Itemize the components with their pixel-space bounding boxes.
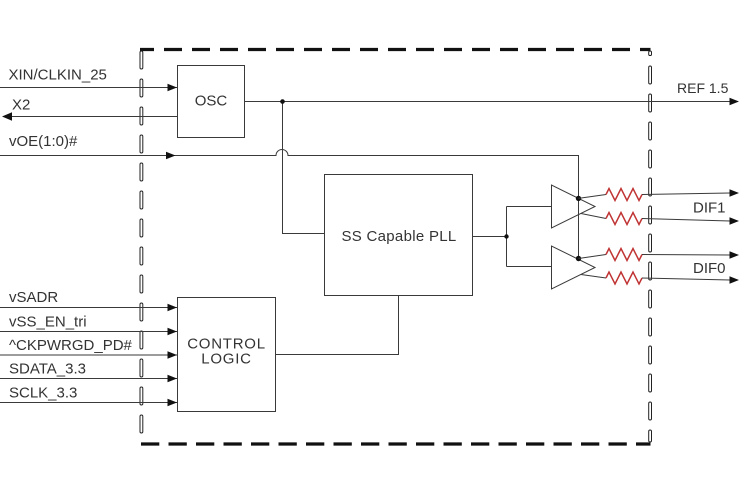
- node junction at PLL output split: [504, 234, 508, 238]
- node junction on buffer U1: [576, 196, 581, 201]
- svg-text:vSADR: vSADR: [9, 289, 58, 306]
- svg-text:XIN/CLKIN_25: XIN/CLKIN_25: [9, 67, 107, 84]
- wire R3 to DIF0+ output: [642, 254, 730, 257]
- wire CONTROL LOGIC to PLL: [276, 296, 399, 355]
- buffer U2 (DIF0 output buffer): [552, 246, 596, 289]
- svg-text:SCLK_3.3: SCLK_3.3: [9, 385, 77, 402]
- buffer U1 (DIF1 output buffer): [552, 185, 596, 228]
- wire buffer U1 to resistor R1: [579, 195, 607, 199]
- block SS Capable PLL: [325, 175, 473, 296]
- wire buffer U2 to resistor R4: [581, 275, 606, 279]
- wire buffer U1 to resistor R2: [581, 214, 606, 219]
- resistor R1: [606, 189, 642, 201]
- wire ^CKPWRGD_PD# input: [0, 354, 177, 356]
- chip boundary dashed border: right edge (hollow dashes): [649, 51, 652, 442]
- wire SCLK_3.3 input: [0, 402, 177, 404]
- chip boundary dashed border: top edge: [140, 48, 651, 51]
- svg-text:LOGIC: LOGIC: [201, 351, 251, 368]
- resistor R3: [606, 249, 642, 261]
- resistor R2: [606, 213, 642, 225]
- wire SDATA_3.3 input: [0, 378, 177, 380]
- svg-text:DIF1: DIF1: [693, 200, 726, 217]
- wire buffer U2 to resistor R3: [579, 255, 607, 259]
- wire vOE(1:0)# with hop over OSC-PLL net, down to buffers: [0, 150, 579, 259]
- wire OSC output to REF1.5: [245, 101, 731, 103]
- wire OSC output down into PLL input: [283, 102, 325, 234]
- wire R1 to DIF1+ output: [642, 193, 730, 195]
- svg-text:vSS_EN_tri: vSS_EN_tri: [9, 314, 87, 331]
- svg-text:DIF0: DIF0: [693, 260, 726, 277]
- wire X2 out of OSC (arrow left): [4, 116, 177, 118]
- chip boundary dashed border: left edge (hollow dashes): [140, 51, 143, 433]
- wire R4 to DIF0- output: [642, 278, 730, 280]
- svg-text:OSC: OSC: [195, 93, 228, 110]
- wire vSADR input: [0, 307, 177, 309]
- wire into buffer U2 input: [507, 266, 552, 268]
- node junction on buffer U2: [576, 256, 581, 261]
- wire R2 to DIF1- output: [642, 219, 730, 222]
- block OSC: [178, 66, 245, 138]
- node junction on OSC output: [280, 99, 285, 104]
- wire into buffer U1 input: [507, 206, 552, 208]
- wire PLL output to buffer split: [473, 236, 507, 238]
- svg-text:SS Capable PLL: SS Capable PLL: [341, 228, 456, 245]
- svg-text:REF 1.5: REF 1.5: [677, 80, 729, 96]
- wire XIN/CLKIN_25 into OSC: [0, 87, 177, 89]
- svg-text:vOE(1:0)#: vOE(1:0)#: [9, 133, 78, 150]
- svg-text:SDATA_3.3: SDATA_3.3: [9, 361, 86, 378]
- svg-text:X2: X2: [12, 97, 30, 114]
- wire vSS_EN_tri input: [0, 331, 177, 333]
- resistor R4: [606, 272, 642, 284]
- block CONTROL LOGIC: [178, 298, 276, 412]
- chip boundary dashed border: bottom edge: [141, 442, 651, 445]
- svg-text:^CKPWRGD_PD#: ^CKPWRGD_PD#: [9, 337, 133, 354]
- wire buffer split vertical: [506, 207, 508, 267]
